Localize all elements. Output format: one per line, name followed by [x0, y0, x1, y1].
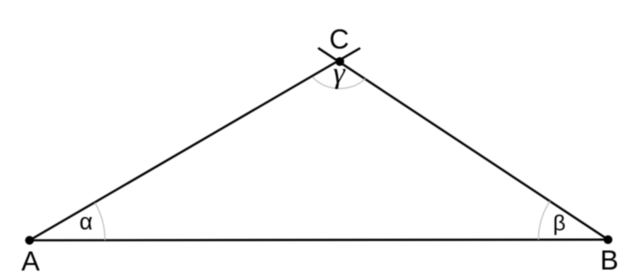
- svg-text:C: C: [329, 23, 349, 54]
- svg-text:β: β: [553, 211, 566, 236]
- angle arc beta at B: [538, 201, 550, 240]
- wire side AB: [30, 239, 609, 242]
- svg-text:γ: γ: [333, 56, 346, 89]
- svg-text:B: B: [600, 245, 618, 276]
- angle arc alpha at A: [95, 203, 105, 241]
- wire side AC extended beyond C: [30, 48, 361, 240]
- svg-text:A: A: [21, 245, 40, 276]
- node C point: [335, 57, 344, 66]
- svg-text:α: α: [79, 209, 92, 235]
- angle arc gamma at C: [313, 77, 366, 88]
- node A point: [25, 236, 34, 245]
- node B point: [604, 235, 613, 244]
- wire side BC extended beyond C: [318, 48, 608, 240]
